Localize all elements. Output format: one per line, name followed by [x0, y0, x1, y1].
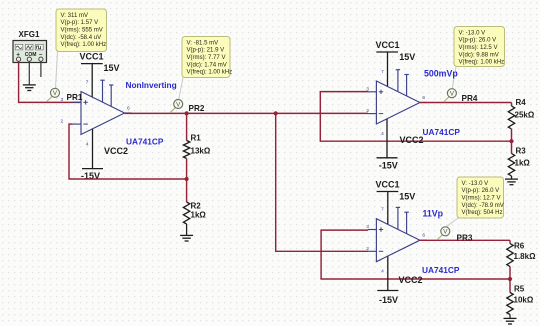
- svg-text:7: 7: [381, 207, 384, 213]
- svg-text:V: 311 mV: V: 311 mV: [61, 13, 89, 19]
- junction node R1/R2/feedback: [185, 177, 189, 181]
- svg-text:2: 2: [366, 108, 369, 114]
- wire U1 feedback vertical: [68, 123, 70, 179]
- svg-text:V(freq): 1.00 kHz: V(freq): 1.00 kHz: [61, 42, 107, 48]
- svg-text:PR3: PR3: [457, 234, 473, 243]
- svg-text:V: -81.5 mV: V: -81.5 mV: [187, 40, 219, 46]
- svg-text:PR1: PR1: [67, 93, 83, 102]
- svg-text:V(p-p): 26.0 V: V(p-p): 26.0 V: [462, 188, 500, 194]
- probe PR4: [444, 89, 457, 102]
- measurement probe readout box for PR1: [56, 9, 107, 52]
- svg-text:V(freq): 1.00 kHz: V(freq): 1.00 kHz: [459, 60, 505, 66]
- resistor R4 (25kΩ): [508, 106, 514, 129]
- svg-text:V(dc): 9.88 mV: V(dc): 9.88 mV: [459, 52, 499, 58]
- svg-text:V(p-p): 21.9 V: V(p-p): 21.9 V: [187, 48, 225, 54]
- power symbol VCC1 (+15V) for U2: [376, 52, 398, 86]
- svg-text:R1: R1: [191, 134, 202, 143]
- leader line PR2 box to probe: [179, 78, 183, 100]
- svg-text:NonInverting: NonInverting: [126, 80, 177, 90]
- svg-text:1.8kΩ: 1.8kΩ: [514, 252, 537, 261]
- power symbol VCC1 (+15V) for U1: [81, 64, 103, 97]
- power symbol -15V bar for U2: [377, 119, 398, 158]
- svg-text:VCC2: VCC2: [399, 275, 423, 285]
- power symbol -15V bar for U1: [82, 129, 103, 169]
- wire junction down to R3: [511, 141, 513, 153]
- svg-text:PR4: PR4: [462, 94, 478, 103]
- svg-text:UA741CP: UA741CP: [423, 127, 461, 137]
- svg-text:11Vp: 11Vp: [423, 209, 444, 219]
- power symbol VCC1 (+15V) for U3: [377, 192, 399, 225]
- U3 pin numbers: [366, 207, 425, 275]
- U2 pin numbers: [366, 69, 425, 137]
- wire R6 bottom to junction: [509, 267, 511, 280]
- junction node R4/R3/feedback: [509, 139, 513, 143]
- svg-text:4: 4: [86, 142, 89, 148]
- svg-text:R4: R4: [516, 98, 527, 107]
- measurement probe readout box for PR4: [454, 27, 505, 67]
- svg-text:6: 6: [422, 95, 425, 101]
- probe PR2: [170, 100, 183, 113]
- svg-text:3: 3: [61, 97, 64, 103]
- svg-text:4: 4: [381, 269, 384, 275]
- function generator XFG1: [13, 30, 47, 63]
- wire PR2 node down to R1: [186, 113, 188, 140]
- wire R6/R5 junction to U3 noninverting path: [320, 278, 510, 280]
- power symbol -15V bar for U3: [377, 257, 398, 291]
- U1 pin numbers: [61, 80, 131, 148]
- wire U2 output to R4 (net PR4): [420, 102, 512, 104]
- svg-text:PR2: PR2: [189, 104, 205, 113]
- svg-text:V(rms): 12.7 V: V(rms): 12.7 V: [462, 196, 501, 202]
- svg-text:4: 4: [381, 131, 384, 137]
- resistor R5 (10kΩ): [507, 293, 513, 315]
- ground below R5: [504, 318, 517, 324]
- ground for XFG1 COM: [23, 84, 36, 90]
- leader line PR3 box to probe: [447, 218, 459, 227]
- leader line PR4 box to probe: [452, 67, 456, 89]
- resistor R2 (1kΩ): [183, 202, 189, 224]
- wire PR2 node down to U3 inverting input: [275, 113, 277, 251]
- svg-text:V: -13.0 V: V: -13.0 V: [462, 181, 489, 187]
- svg-text:7: 7: [381, 69, 384, 75]
- svg-text:-15V: -15V: [379, 160, 398, 170]
- wire XFG1 + terminal down: [18, 61, 20, 102]
- wire U2 feedback vertical: [319, 91, 321, 141]
- measurement probe readout box for PR3: [457, 177, 504, 218]
- U3 input polarity marks: [379, 227, 383, 251]
- svg-text:1kΩ: 1kΩ: [515, 159, 531, 168]
- wire junction down to R5: [509, 279, 511, 293]
- measurement probe readout box for PR2: [182, 37, 232, 78]
- svg-text:UA741CP: UA741CP: [422, 265, 460, 275]
- svg-text:7: 7: [86, 80, 89, 86]
- wire to U3 noninverting input: [321, 229, 368, 231]
- ground below R3: [505, 179, 518, 185]
- wire to U3 inverting input: [275, 250, 368, 252]
- wire corner down to R4: [511, 103, 513, 107]
- wire U1 output to U2 inverting input (net PR2): [125, 112, 369, 114]
- wire R4 bottom to junction: [511, 129, 513, 141]
- svg-text:500mVp: 500mVp: [424, 69, 458, 79]
- svg-text:VCC1: VCC1: [376, 40, 400, 50]
- svg-text:V(freq): 504 Hz: V(freq): 504 Hz: [462, 210, 503, 216]
- junction node PR2 branch to U3: [274, 111, 278, 115]
- svg-text:UA741CP: UA741CP: [126, 137, 164, 147]
- svg-text:15V: 15V: [399, 192, 415, 202]
- svg-text:13kΩ: 13kΩ: [191, 147, 211, 156]
- op-amp U2 UA741CP triangle: [368, 70, 427, 124]
- svg-text:R6: R6: [514, 242, 525, 251]
- leader line PR1 box to probe: [56, 52, 58, 89]
- wire to U2 noninverting input: [320, 91, 368, 93]
- svg-text:V(dc): -78.9 mV: V(dc): -78.9 mV: [462, 203, 504, 209]
- svg-text:6: 6: [127, 106, 130, 112]
- wire U3 feedback vertical: [320, 229, 322, 279]
- svg-text:R5: R5: [514, 285, 525, 294]
- svg-text:15V: 15V: [399, 52, 415, 62]
- wire U1 inverting input stub connection: [69, 123, 73, 125]
- wire XFG1 - terminal stub: [40, 61, 42, 77]
- resistor R3 (1kΩ): [508, 154, 514, 177]
- wire U3 output to R6 (net PR3): [420, 239, 510, 241]
- probe PR3: [437, 227, 450, 240]
- U1 input polarity marks: [83, 100, 87, 124]
- wire junction down to R2: [186, 179, 188, 202]
- op-amp U3 UA741CP triangle: [368, 207, 427, 261]
- U2 input polarity marks: [379, 90, 383, 114]
- resistor R6 (1.8kΩ): [507, 244, 513, 267]
- svg-text:VCC1: VCC1: [80, 52, 104, 62]
- svg-text:V(rms): 12.5 V: V(rms): 12.5 V: [459, 45, 498, 51]
- junction node PR2 / R1: [185, 111, 189, 115]
- svg-text:2: 2: [366, 246, 369, 252]
- wire XFG1 to U1 noninverting input (net PR1): [18, 101, 81, 103]
- op-amp U1 UA741CP triangle: [73, 80, 132, 134]
- junction node R6/R5/feedback: [508, 277, 512, 281]
- svg-text:V(rms): 7.77 V: V(rms): 7.77 V: [187, 55, 226, 61]
- svg-text:-15V: -15V: [379, 295, 398, 305]
- svg-text:V(p-p): 1.57 V: V(p-p): 1.57 V: [61, 20, 99, 26]
- svg-text:VCC1: VCC1: [376, 179, 400, 189]
- wire U1 feedback to R1/R2 junction: [68, 178, 186, 180]
- wire XFG1 COM to ground: [28, 61, 30, 84]
- svg-text:1kΩ: 1kΩ: [191, 211, 207, 220]
- svg-text:3: 3: [366, 224, 369, 230]
- wire R3 to ground: [511, 176, 513, 179]
- wire R1 bottom to junction: [186, 159, 188, 180]
- wire R2 bottom to ground: [186, 224, 188, 235]
- wire R4/R3 junction to U2 noninverting path (net VCC2 row): [320, 140, 512, 142]
- svg-text:25kΩ: 25kΩ: [515, 111, 535, 120]
- svg-text:VCC2: VCC2: [400, 135, 424, 145]
- svg-text:XFG1: XFG1: [19, 30, 40, 39]
- svg-text:V: -13.0 V: V: -13.0 V: [459, 30, 486, 36]
- resistor R1 (13kΩ): [183, 141, 189, 159]
- svg-text:V(dc): 1.74 mV: V(dc): 1.74 mV: [187, 62, 227, 68]
- svg-text:2: 2: [61, 119, 64, 125]
- svg-text:VCC2: VCC2: [104, 146, 128, 156]
- ground below R2: [180, 235, 193, 241]
- wire R5 to ground: [509, 315, 511, 318]
- svg-text:3: 3: [366, 86, 369, 92]
- svg-text:6: 6: [422, 233, 425, 239]
- svg-text:10kΩ: 10kΩ: [514, 296, 534, 305]
- svg-text:V(dc): -58.4 uV: V(dc): -58.4 uV: [61, 35, 102, 41]
- svg-text:V(p-p): 26.0 V: V(p-p): 26.0 V: [459, 38, 497, 44]
- probe PR1: [46, 88, 59, 102]
- svg-text:V(rms): 555 mV: V(rms): 555 mV: [61, 28, 103, 34]
- wire corner down to R6: [509, 240, 511, 243]
- svg-text:R3: R3: [516, 147, 527, 156]
- svg-text:V(freq): 1.00 kHz: V(freq): 1.00 kHz: [187, 70, 233, 76]
- svg-text:R2: R2: [191, 202, 202, 211]
- svg-text:15V: 15V: [104, 63, 120, 73]
